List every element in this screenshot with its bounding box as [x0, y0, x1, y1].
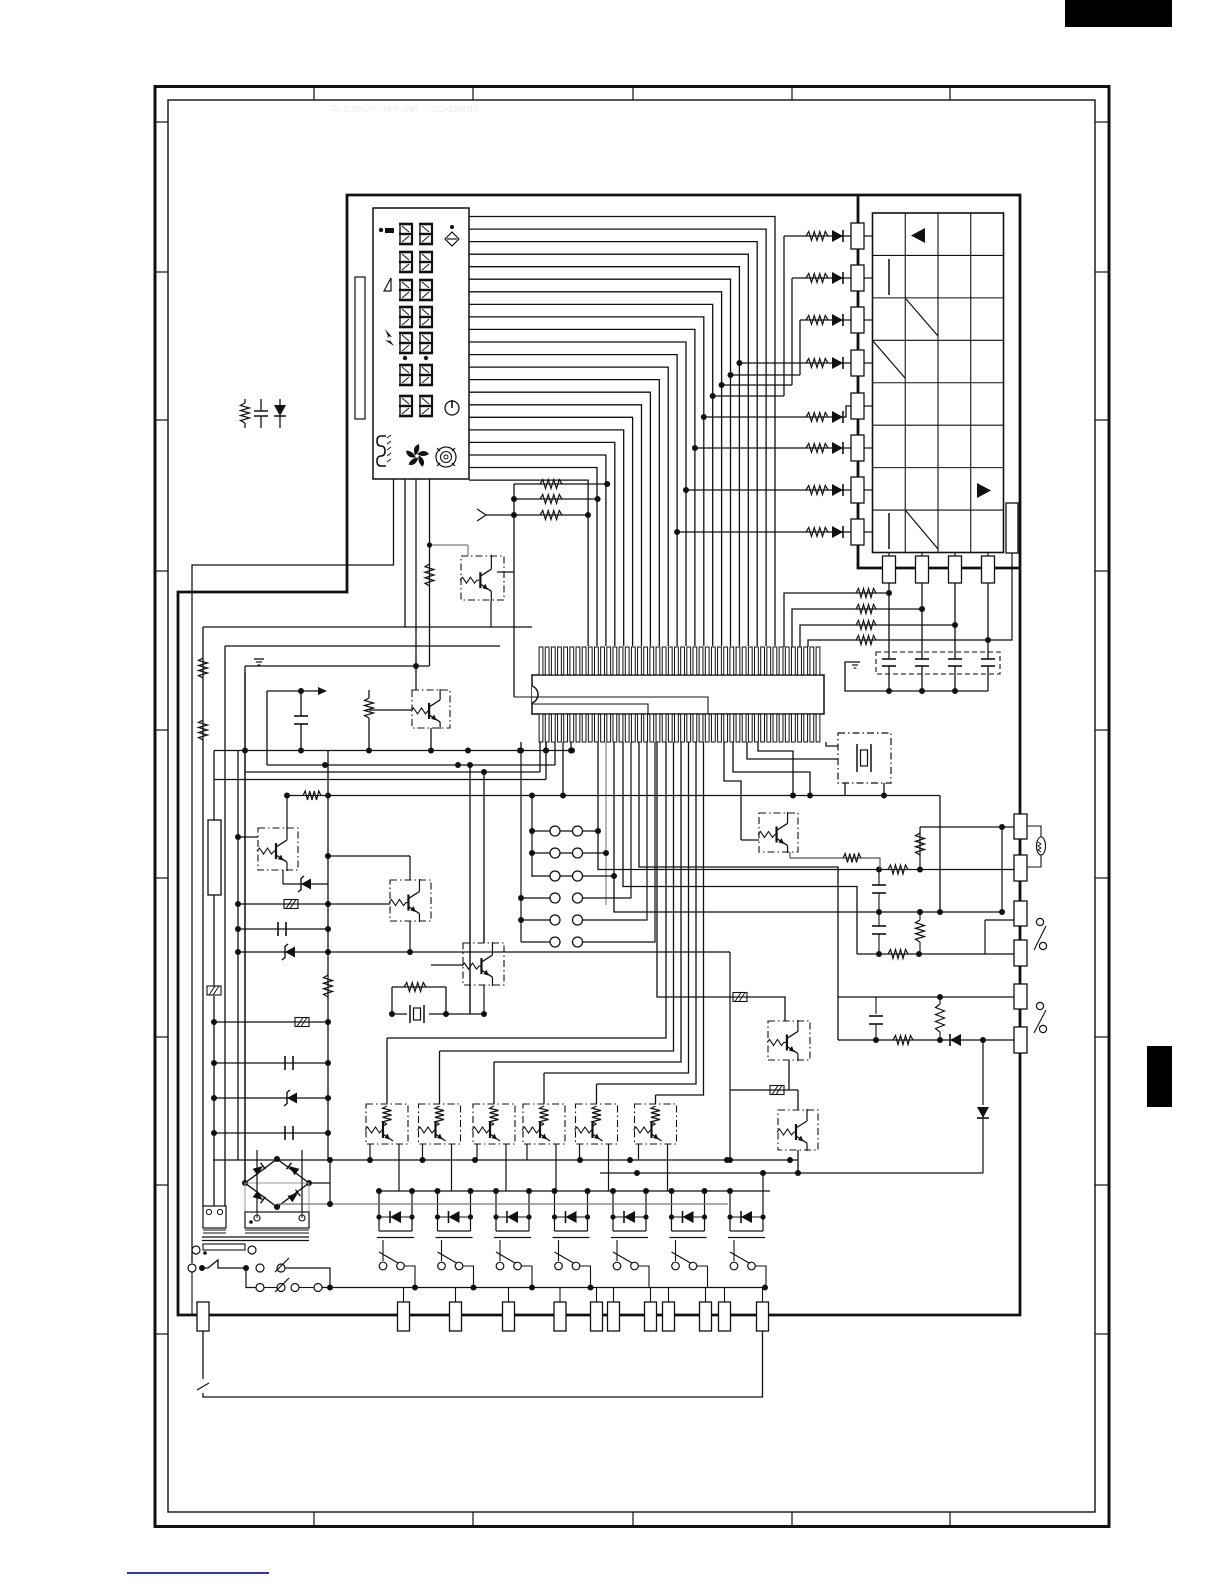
svg-text:FL DISPLAY / KEY UNIT — SCHEMA: FL DISPLAY / KEY UNIT — SCHEMATIC: [332, 105, 479, 114]
